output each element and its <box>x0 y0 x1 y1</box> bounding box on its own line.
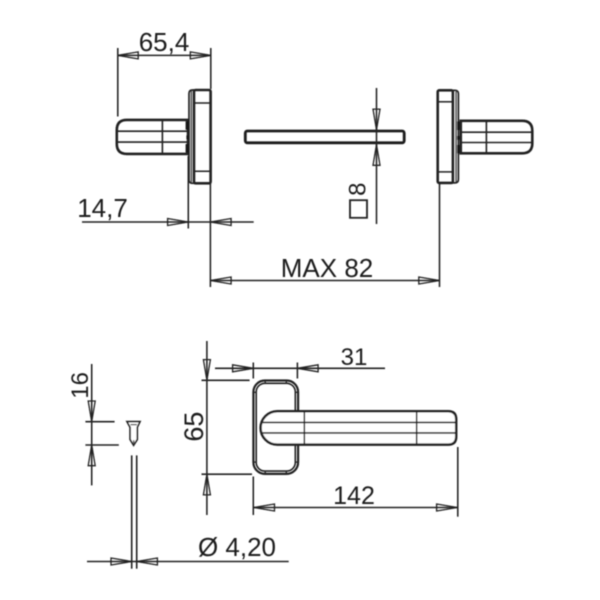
left grip neck junction marks <box>186 121 190 152</box>
svg-text:65: 65 <box>179 412 209 442</box>
right handle grip (side view) <box>461 121 533 154</box>
dimension 31 left arrowhead <box>233 365 254 372</box>
screw tip notch <box>133 440 135 443</box>
dimension 16 lower tick <box>85 444 118 446</box>
dimension 16 upper tick <box>85 421 114 423</box>
dimension 16 line (vertical) <box>91 364 93 485</box>
screw shaft projection lines <box>131 455 133 568</box>
svg-text:142: 142 <box>333 482 375 510</box>
svg-text:Ø 4,20: Ø 4,20 <box>198 532 276 562</box>
dimension MAX 82 right arrowhead <box>419 277 440 284</box>
dimension 14,7 left arrowhead <box>168 219 189 226</box>
dimension 16 upper arrowhead <box>88 401 95 422</box>
left rosette plate (side view) <box>194 90 211 183</box>
handle lever front view <box>261 411 457 444</box>
screw head underside line <box>131 424 137 426</box>
right grip neck junction marks <box>457 122 461 154</box>
spindle thickness lower arrowhead <box>373 145 380 166</box>
left handle grip (side view) <box>117 120 188 154</box>
dimension 65 lower arrowhead <box>203 474 210 495</box>
dimension 65 lower extension line <box>202 473 253 475</box>
dimension 31 right arrowhead <box>297 365 318 372</box>
dimension 16 lower arrowhead <box>88 445 95 466</box>
dimension 142 right arrowhead <box>437 504 458 511</box>
dimension 65 line (vertical) <box>206 341 208 515</box>
dimension MAX 82 line <box>210 280 439 282</box>
dimension 14,7 line <box>82 221 254 223</box>
dimension MAX 82 right extension line (right rosette outer face) <box>439 184 441 288</box>
svg-text:31: 31 <box>341 344 368 371</box>
dimension 14,7 extension line (grip end plane) <box>187 156 189 229</box>
dimension 65,4 line <box>118 54 212 56</box>
dimension 142 right extension line <box>457 447 459 517</box>
svg-text:65,4: 65,4 <box>139 27 190 57</box>
dimension 65,4 extension line right <box>210 48 212 89</box>
shared extension line (left rosette outer face) for 14,7 and MAX 82 <box>209 184 211 288</box>
dimension 65 upper extension line <box>202 379 250 381</box>
svg-text:16: 16 <box>67 372 94 399</box>
dimension diameter 4,20 right arrowhead <box>137 558 158 565</box>
dimension 65,4 extension line left <box>117 48 119 117</box>
dimension 65,4 right arrowhead <box>190 52 211 59</box>
dimension 31 extension tick right <box>296 363 298 379</box>
dimension 142 left extension line <box>252 477 254 516</box>
dimension MAX 82 left arrowhead <box>210 277 231 284</box>
dimension 142 left arrowhead <box>254 504 275 511</box>
dimension 31 extension tick left <box>252 363 254 379</box>
rosette corner tangent ticks <box>253 380 298 474</box>
left rosette cover cap (side view) <box>189 90 194 183</box>
dimension 31 line <box>215 367 385 369</box>
right rosette plate (side view) <box>438 90 453 183</box>
svg-text:MAX 82: MAX 82 <box>281 253 374 283</box>
right rosette cover cap (side view) <box>453 90 459 183</box>
dimension diameter 4,20 line <box>87 561 289 563</box>
rosette front outer contour <box>253 381 298 474</box>
dimension 142 line <box>253 507 457 509</box>
screw (front view) <box>127 422 140 446</box>
dimension 65,4 left arrowhead <box>118 52 139 59</box>
svg-text:8: 8 <box>345 183 372 196</box>
dimension diameter 4,20 left arrowhead <box>111 558 132 565</box>
rosette front inner contour <box>256 383 295 471</box>
spindle square bar (side view) <box>245 131 404 143</box>
spindle thickness upper arrowhead <box>373 109 380 130</box>
svg-text:14,7: 14,7 <box>77 193 128 223</box>
dimension 14,7 right arrowhead <box>210 219 231 226</box>
dimension 65 upper arrowhead <box>203 360 210 381</box>
spindle thickness dimension line (vertical) <box>376 88 378 224</box>
square-section symbol <box>350 200 367 218</box>
